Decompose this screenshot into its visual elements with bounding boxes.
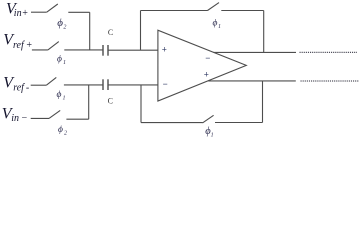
svg-text:in+: in+ — [14, 8, 29, 19]
svg-text:ref +: ref + — [13, 40, 33, 51]
svg-text:ϕ: ϕ — [57, 17, 63, 29]
svg-text:ϕ: ϕ — [57, 55, 62, 65]
svg-text:C: C — [108, 96, 113, 105]
svg-text:1: 1 — [63, 96, 66, 102]
svg-text:ϕ: ϕ — [213, 19, 218, 29]
svg-text:C: C — [108, 28, 113, 37]
svg-text:1: 1 — [211, 132, 214, 138]
svg-text:2: 2 — [64, 131, 67, 137]
svg-text:1: 1 — [218, 24, 221, 30]
svg-text:1: 1 — [63, 60, 66, 66]
svg-text:−: − — [205, 53, 210, 63]
svg-text:ϕ: ϕ — [57, 90, 62, 100]
svg-text:−: − — [163, 79, 168, 89]
svg-text:ref -: ref - — [13, 83, 29, 94]
svg-text:+: + — [204, 69, 209, 79]
svg-text:+: + — [162, 45, 167, 55]
svg-text:in −: in − — [11, 113, 28, 124]
svg-text:ϕ: ϕ — [58, 125, 63, 135]
svg-text:2: 2 — [63, 25, 66, 31]
